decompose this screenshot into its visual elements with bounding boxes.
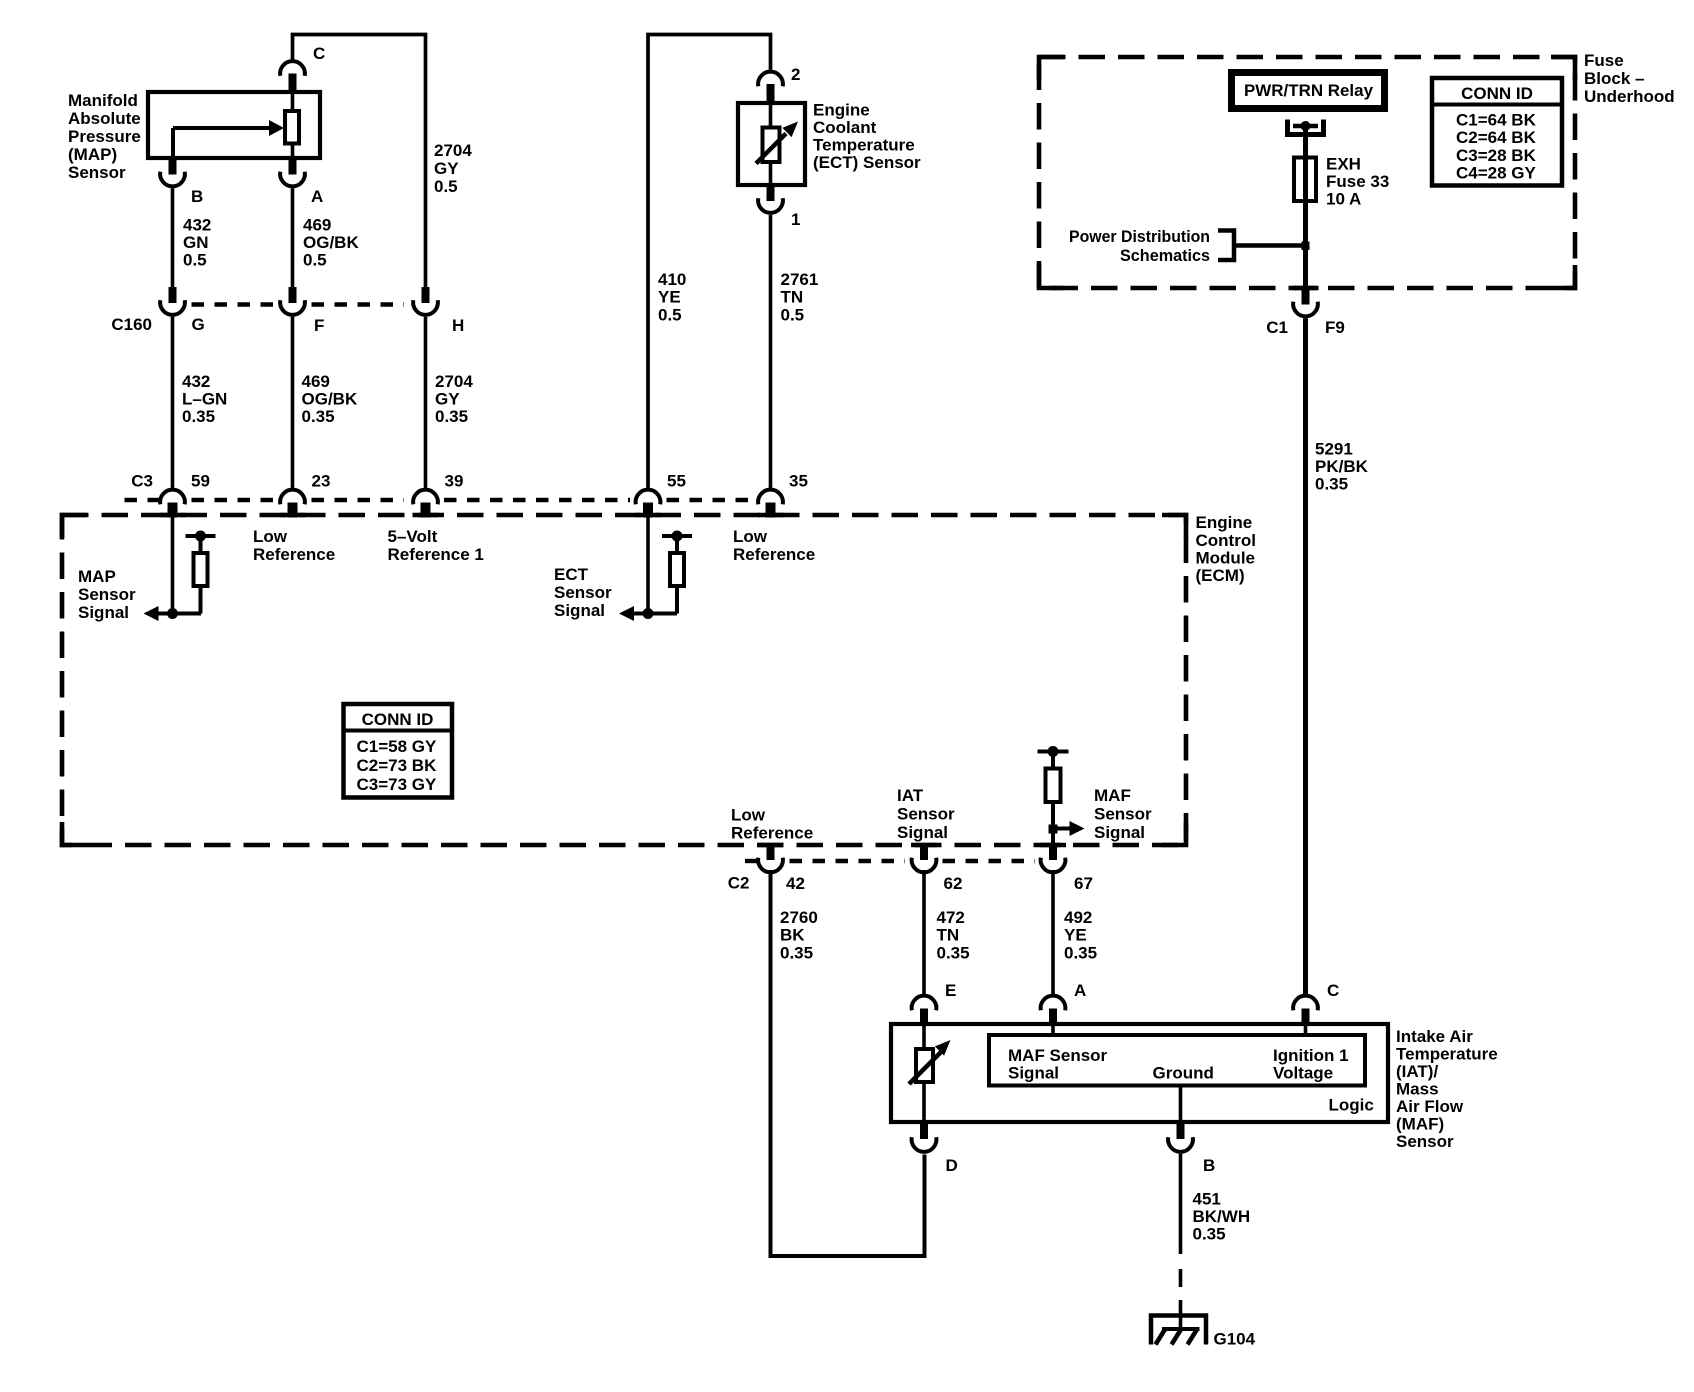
svg-text:0.35: 0.35 <box>1193 1225 1226 1244</box>
MAP internal wiper arrow <box>173 120 284 158</box>
dashed wire segment to ground <box>1179 1269 1183 1287</box>
svg-text:Signal: Signal <box>1094 823 1145 842</box>
svg-text:Low: Low <box>253 527 288 546</box>
label Manifold Absolute Pressure (MAP) Sensor <box>68 91 141 182</box>
connector ECT pin 2 female arc <box>758 72 783 87</box>
svg-text:432: 432 <box>182 372 210 391</box>
svg-text:Absolute: Absolute <box>68 109 141 128</box>
svg-text:Ground: Ground <box>1153 1064 1214 1083</box>
svg-text:0.35: 0.35 <box>1315 475 1348 494</box>
svg-text:C: C <box>1327 981 1339 1000</box>
svg-text:C160: C160 <box>111 315 152 334</box>
pin stub A below MAP box <box>289 158 297 175</box>
power distribution bracket <box>1218 231 1306 261</box>
svg-text:Reference: Reference <box>731 824 813 843</box>
wire 2761 TN from 1 to C3-35 <box>769 215 773 488</box>
svg-text:2: 2 <box>791 65 800 84</box>
svg-text:Reference: Reference <box>253 545 335 564</box>
svg-text:2704: 2704 <box>435 372 473 391</box>
label ECT Sensor Signal <box>554 565 612 620</box>
svg-text:G104: G104 <box>1214 1330 1256 1349</box>
svg-text:ECT: ECT <box>554 565 589 584</box>
svg-text:C3: C3 <box>131 472 153 491</box>
svg-text:Low: Low <box>731 806 766 825</box>
label Engine Control Module (ECM) <box>1196 513 1256 585</box>
Fuse Block Underhood dashed border box <box>1039 57 1575 288</box>
label 472 TN 0.35 <box>937 908 970 963</box>
pin stub D below MAF box <box>920 1122 928 1139</box>
MAF logic box <box>989 1035 1365 1086</box>
fuse block border corner pieces <box>1039 57 1575 288</box>
svg-text:Intake Air: Intake Air <box>1396 1027 1473 1046</box>
label MAF Sensor Signal (pin 67) <box>1094 786 1152 842</box>
svg-text:35: 35 <box>789 472 808 491</box>
MAF signal junction square <box>1049 825 1058 834</box>
wire top loop MAP C to H <box>293 35 426 288</box>
wire ECM internal ECT signal <box>646 517 650 614</box>
MAF sensor box <box>891 1024 1388 1122</box>
label Ignition 1 Voltage (logic box) <box>1273 1046 1349 1083</box>
svg-text:2761: 2761 <box>781 270 819 289</box>
svg-text:62: 62 <box>944 874 963 893</box>
label Intake Air Temperature (IAT)/ Mass Air Flow (MAF) Sensor <box>1396 1027 1498 1151</box>
svg-text:0.35: 0.35 <box>435 407 468 426</box>
wire 432 L-GN from G to C3-59 <box>171 317 175 488</box>
svg-text:Ignition 1: Ignition 1 <box>1273 1046 1349 1065</box>
svg-text:Signal: Signal <box>897 823 948 842</box>
wire 472 TN from 62 to E <box>922 870 926 994</box>
svg-text:MAP: MAP <box>78 567 116 586</box>
junction dot MAP signal <box>167 608 178 619</box>
svg-text:IAT: IAT <box>897 786 924 805</box>
pin stub B below MAP box <box>169 158 177 175</box>
label 432 L-GN 0.35 <box>182 372 227 426</box>
svg-text:Signal: Signal <box>554 601 605 620</box>
pin stub A into MAF box <box>1049 1009 1057 1025</box>
connector C160 dashed line <box>192 302 405 306</box>
label 432 GN 0.5 <box>183 216 211 270</box>
svg-text:469: 469 <box>302 372 330 391</box>
svg-text:PK/BK: PK/BK <box>1315 457 1369 476</box>
wire 451 BK/WH from B <box>1179 1154 1183 1254</box>
C160 pin G stub <box>169 287 177 303</box>
svg-text:0.35: 0.35 <box>1064 944 1097 963</box>
svg-text:Coolant: Coolant <box>813 118 877 137</box>
label Engine Coolant Temperature (ECT) Sensor <box>813 101 921 173</box>
svg-text:432: 432 <box>183 216 211 235</box>
svg-text:PWR/TRN Relay: PWR/TRN Relay <box>1244 81 1374 100</box>
ECM pull-up resistor (ECT) <box>662 531 692 614</box>
label MAP Sensor Signal <box>78 567 136 622</box>
svg-text:5291: 5291 <box>1315 440 1353 459</box>
wire 469 OG/BK from A to C160 <box>291 188 295 287</box>
wire Ground pin B inside MAF box <box>1179 1086 1183 1123</box>
svg-text:GY: GY <box>434 159 459 178</box>
svg-text:TN: TN <box>937 926 960 945</box>
svg-text:MAF: MAF <box>1094 786 1131 805</box>
svg-text:Block –: Block – <box>1584 69 1644 88</box>
connector C (MAP pin C female arc) <box>280 61 305 76</box>
svg-text:23: 23 <box>312 472 331 491</box>
C3 pin 23 arc <box>280 490 305 505</box>
svg-text:0.5: 0.5 <box>183 251 207 270</box>
C3 pin 55 arc <box>636 490 661 505</box>
pin stub C1-F9 below fuse block <box>1302 289 1310 305</box>
label Fuse Block - Underhood <box>1584 51 1675 106</box>
svg-text:Temperature: Temperature <box>813 136 915 155</box>
C160 pin F stub <box>289 287 297 303</box>
connector C1 F9 female arc <box>1293 302 1318 317</box>
svg-text:Sensor: Sensor <box>1396 1132 1454 1151</box>
svg-text:Logic: Logic <box>1329 1096 1374 1115</box>
svg-text:55: 55 <box>667 472 686 491</box>
pin stub B below MAF box <box>1177 1122 1185 1139</box>
svg-text:BK/WH: BK/WH <box>1193 1207 1251 1226</box>
svg-text:67: 67 <box>1074 874 1093 893</box>
svg-text:C1=58 GY: C1=58 GY <box>357 737 438 756</box>
svg-text:Sensor: Sensor <box>1094 805 1152 824</box>
C160 pin G arc <box>160 300 185 315</box>
wire top loop ECT 410 YE <box>648 35 771 489</box>
svg-text:Sensor: Sensor <box>897 805 955 824</box>
ECM pull-up resistor (MAP) <box>186 531 216 614</box>
svg-text:CONN ID: CONN ID <box>1461 84 1533 103</box>
connector A female arc <box>1041 996 1066 1011</box>
svg-text:OG/BK: OG/BK <box>302 390 358 409</box>
svg-text:Voltage: Voltage <box>1273 1064 1333 1083</box>
wire ECM internal MAP signal <box>171 517 175 614</box>
ECT sensor box <box>738 103 805 185</box>
svg-text:GN: GN <box>183 233 209 252</box>
C160 pin H stub <box>422 287 430 303</box>
ECM CONN ID table <box>344 704 453 798</box>
svg-text:(ECM): (ECM) <box>1196 566 1245 585</box>
C3 pin 55 stub <box>643 503 653 518</box>
svg-text:MAF Sensor: MAF Sensor <box>1008 1046 1108 1065</box>
svg-text:C1: C1 <box>1266 318 1288 337</box>
svg-text:Sensor: Sensor <box>78 585 136 604</box>
svg-text:F9: F9 <box>1325 318 1345 337</box>
label 451 BK/WH 0.35 <box>1193 1190 1251 1244</box>
svg-text:Underhood: Underhood <box>1584 87 1675 106</box>
svg-text:10 A: 10 A <box>1326 190 1361 209</box>
svg-text:(MAF): (MAF) <box>1396 1115 1444 1134</box>
ECT thermistor element <box>756 103 798 185</box>
svg-text:Temperature: Temperature <box>1396 1045 1498 1064</box>
svg-text:C1=64 BK: C1=64 BK <box>1456 111 1537 130</box>
C2 pin 67 arc <box>1041 858 1066 873</box>
connector B female arc <box>1168 1137 1193 1152</box>
MAP internal resistor element <box>285 92 299 158</box>
label 2704 GY 0.35 <box>435 372 473 426</box>
ECM border corner pieces <box>62 515 1186 845</box>
svg-text:1: 1 <box>791 210 800 229</box>
wire 2760 BK loop from 42 to MAF D <box>771 870 925 1256</box>
svg-text:0.35: 0.35 <box>302 407 335 426</box>
svg-text:H: H <box>452 316 464 335</box>
connector A female arc <box>280 172 305 187</box>
connector C3 dashed line <box>125 498 754 502</box>
svg-text:B: B <box>1203 1156 1215 1175</box>
svg-text:Signal: Signal <box>1008 1064 1059 1083</box>
MAP sensor box <box>148 92 320 158</box>
svg-text:Manifold: Manifold <box>68 91 138 110</box>
fuse block border dash at C1 crossing <box>1293 286 1319 291</box>
svg-text:OG/BK: OG/BK <box>303 233 359 252</box>
svg-text:BK: BK <box>780 926 805 945</box>
connector E female arc <box>912 996 937 1011</box>
label 2704 GY 0.5 <box>434 141 472 196</box>
svg-text:G: G <box>192 315 205 334</box>
svg-text:Air Flow: Air Flow <box>1396 1097 1464 1116</box>
C3 pin 23 stub <box>288 503 298 518</box>
connector C female arc <box>1293 996 1318 1011</box>
connector ECT pin 1 female arc <box>758 198 783 213</box>
C2 pin 42 stub <box>767 845 775 860</box>
svg-text:410: 410 <box>658 270 686 289</box>
svg-text:EXH: EXH <box>1326 155 1361 174</box>
svg-text:C2=73 BK: C2=73 BK <box>357 756 438 775</box>
svg-text:B: B <box>191 187 203 206</box>
svg-text:YE: YE <box>1064 926 1087 945</box>
svg-text:Sensor: Sensor <box>68 163 126 182</box>
svg-text:D: D <box>946 1156 958 1175</box>
ECM border dashes at pin crossings <box>160 515 1067 845</box>
label 469 OG/BK 0.35 <box>302 372 358 426</box>
junction dot ECT signal <box>643 608 654 619</box>
svg-text:Low: Low <box>733 527 768 546</box>
label 5291 PK/BK 0.35 <box>1315 440 1369 494</box>
svg-text:E: E <box>945 981 956 1000</box>
C2 pin 42 arc <box>758 858 783 873</box>
connector C2 dashed line <box>745 859 1035 863</box>
svg-text:GY: GY <box>435 390 460 409</box>
svg-text:Mass: Mass <box>1396 1080 1439 1099</box>
C2 pin 62 stub <box>920 845 928 860</box>
svg-text:(ECT) Sensor: (ECT) Sensor <box>813 153 921 172</box>
svg-text:0.5: 0.5 <box>781 306 805 325</box>
svg-text:0.5: 0.5 <box>658 306 682 325</box>
C2 pin 67 stub <box>1049 845 1057 860</box>
svg-text:Schematics: Schematics <box>1120 246 1210 265</box>
label 410 YE 0.5 <box>658 270 686 325</box>
svg-text:TN: TN <box>781 288 804 307</box>
svg-text:C3=28 BK: C3=28 BK <box>1456 146 1537 165</box>
wire 2704 GY from H to C3-39 <box>424 317 428 488</box>
svg-text:A: A <box>1074 981 1086 1000</box>
svg-text:CONN ID: CONN ID <box>362 710 434 729</box>
ECT signal arrow <box>619 606 677 621</box>
C2 pin 62 arc <box>912 858 937 873</box>
svg-text:(IAT)/: (IAT)/ <box>1396 1062 1438 1081</box>
PWR/TRN Relay box <box>1232 73 1385 109</box>
svg-text:0.5: 0.5 <box>303 251 327 270</box>
svg-text:0.5: 0.5 <box>434 177 458 196</box>
label EXH Fuse 33 10 A <box>1326 155 1389 209</box>
label 469 OG/BK 0.5 <box>303 216 359 270</box>
svg-text:39: 39 <box>445 472 464 491</box>
MAP signal arrow <box>144 606 202 621</box>
ground symbol G104 <box>1151 1316 1206 1345</box>
label MAF Sensor Signal (logic box) <box>1008 1046 1108 1083</box>
svg-text:2760: 2760 <box>780 908 818 927</box>
svg-text:59: 59 <box>191 472 210 491</box>
svg-text:0.35: 0.35 <box>182 407 215 426</box>
svg-text:451: 451 <box>1193 1190 1221 1209</box>
label IAT Sensor Signal (pin 62) <box>897 786 955 842</box>
svg-text:Engine: Engine <box>1196 513 1253 532</box>
relay terminal bracket <box>1288 120 1324 135</box>
IAT thermistor element <box>909 1024 951 1122</box>
svg-text:Signal: Signal <box>78 603 129 622</box>
svg-text:C3=73 GY: C3=73 GY <box>357 775 438 794</box>
svg-text:492: 492 <box>1064 908 1092 927</box>
svg-text:C2=64 BK: C2=64 BK <box>1456 128 1537 147</box>
label Low Reference (pin 42) <box>731 806 813 843</box>
ECM dashed border box <box>62 515 1186 845</box>
pin stub C into MAF box <box>1302 1009 1310 1025</box>
svg-text:2704: 2704 <box>434 141 472 160</box>
label 2761 TN 0.5 <box>781 270 819 325</box>
connector D female arc <box>912 1137 937 1152</box>
svg-text:C: C <box>313 44 325 63</box>
C3 pin 59 stub <box>168 503 178 518</box>
C3 pin 35 arc <box>758 490 783 505</box>
svg-text:Power Distribution: Power Distribution <box>1069 227 1210 246</box>
fuse block CONN ID table <box>1432 78 1562 186</box>
svg-text:469: 469 <box>303 216 331 235</box>
svg-text:L–GN: L–GN <box>182 390 227 409</box>
svg-text:A: A <box>311 187 323 206</box>
svg-text:42: 42 <box>786 874 805 893</box>
wire A into logic box <box>1051 1024 1055 1035</box>
svg-text:Reference: Reference <box>733 545 815 564</box>
C160 pin H arc <box>413 300 438 315</box>
label Low Reference (pin 23) <box>253 527 335 564</box>
C3 pin 39 arc <box>413 490 438 505</box>
svg-text:472: 472 <box>937 908 965 927</box>
svg-text:C4=28 GY: C4=28 GY <box>1456 164 1537 183</box>
svg-text:Sensor: Sensor <box>554 583 612 602</box>
svg-text:C2: C2 <box>728 874 750 893</box>
C3 pin 39 stub <box>421 503 431 518</box>
label 2760 BK 0.35 <box>780 908 818 963</box>
svg-text:0.35: 0.35 <box>937 944 970 963</box>
C3 pin 59 arc <box>160 490 185 505</box>
label Power Distribution Schematics <box>1069 227 1210 265</box>
wire 432 GN from B to C160 <box>171 188 175 287</box>
wire relay to fuse <box>1303 126 1308 289</box>
svg-text:Fuse: Fuse <box>1584 51 1624 70</box>
junction square power distribution <box>1302 242 1310 251</box>
wire 469 OG/BK from F to C3-23 <box>291 317 295 488</box>
svg-text:Module: Module <box>1196 549 1256 568</box>
svg-text:Engine: Engine <box>813 101 870 120</box>
pin stub 2 into ECT box <box>767 84 775 103</box>
pin stub C into MAP box <box>289 74 297 93</box>
MAF signal arrow <box>1053 821 1085 836</box>
svg-text:Pressure: Pressure <box>68 127 141 146</box>
wire 5291 PK/BK from F9 to MAF C <box>1303 318 1308 994</box>
connector B female arc <box>160 172 185 187</box>
pin stub E into MAF box <box>920 1009 928 1025</box>
C160 pin F arc <box>280 300 305 315</box>
label 5-Volt Reference 1 (pin 39) <box>388 527 484 564</box>
fuse EXH Fuse 33 10 A <box>1294 158 1316 202</box>
wire into ground symbol <box>1179 1300 1183 1329</box>
svg-text:0.35: 0.35 <box>780 944 813 963</box>
svg-text:Fuse 33: Fuse 33 <box>1326 172 1389 191</box>
ECM pull-up resistor (MAF) <box>1038 746 1069 845</box>
svg-text:Control: Control <box>1196 531 1256 550</box>
svg-text:F: F <box>314 316 324 335</box>
C3 pin 35 stub <box>766 503 776 518</box>
wire 492 YE from 67 to A <box>1051 870 1055 994</box>
pin stub 1 below ECT box <box>767 185 775 201</box>
label 492 YE 0.35 <box>1064 908 1097 963</box>
svg-text:YE: YE <box>658 288 681 307</box>
svg-text:5–Volt: 5–Volt <box>388 527 438 546</box>
label Low Reference (pin 35) <box>733 527 815 564</box>
svg-text:Reference 1: Reference 1 <box>388 545 484 564</box>
wire C into logic box <box>1304 1024 1308 1035</box>
svg-text:(MAP): (MAP) <box>68 145 117 164</box>
